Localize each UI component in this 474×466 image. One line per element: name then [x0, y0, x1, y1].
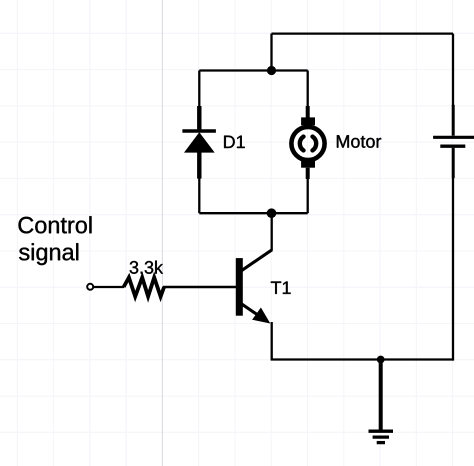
motor M1 — [291, 106, 324, 179]
wire top node drop — [270, 34, 272, 71]
wire motor branch lower — [307, 177, 309, 213]
wire base — [163, 286, 237, 289]
wire right side lower — [452, 178, 454, 361]
node A (top junction) — [267, 66, 276, 75]
label 3.3k — [130, 261, 163, 274]
wire diode branch upper — [198, 71, 200, 109]
wire parallel box top rail — [199, 69, 307, 71]
node B (bottom junction of box) — [267, 208, 277, 218]
resistor R1 3.3k — [124, 278, 165, 297]
wire terminal to resistor — [93, 286, 125, 288]
wire emitter drop — [271, 322, 273, 360]
wire right side upper — [452, 34, 454, 106]
label Control signal — [19, 216, 92, 233]
ground — [369, 360, 394, 443]
wire collector — [271, 213, 273, 250]
wire top rail — [272, 32, 454, 34]
wire parallel box bottom rail — [199, 212, 307, 214]
label T1 — [271, 282, 291, 294]
terminal (control input) — [87, 284, 93, 290]
label D1 — [224, 136, 245, 148]
transistor T1 — [236, 250, 272, 324]
wire diode branch lower — [198, 176, 200, 213]
wire motor branch upper — [307, 71, 309, 109]
diode D1 — [182, 106, 216, 179]
wire bottom rail — [271, 358, 453, 360]
battery B1 — [433, 105, 474, 178]
node C (ground junction) — [377, 356, 385, 364]
label Motor — [337, 135, 381, 148]
